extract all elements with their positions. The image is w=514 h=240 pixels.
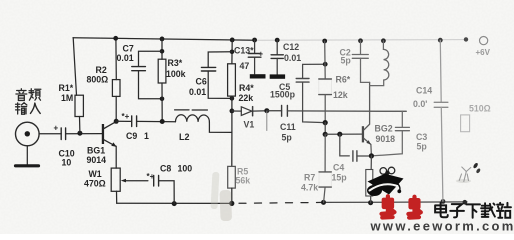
node junction bottom rail at R5 (229, 201, 234, 206)
svg-text:+: + (54, 124, 59, 133)
label audio input char shu (16, 103, 27, 114)
svg-text:C11: C11 (280, 122, 296, 132)
svg-text:C8: C8 (160, 164, 171, 174)
wire C11 to C3 top (RF line) (287, 110, 406, 112)
wire BG1 emitter to W1 (115, 146, 117, 168)
node rail junction L1 coil (381, 38, 386, 43)
resistor R1 (75, 95, 83, 116)
watermark red bug character 2 (408, 197, 420, 218)
diode V1 (232, 107, 267, 116)
inductor L2 core dashes (175, 109, 208, 111)
node rail junction R2 (113, 36, 118, 41)
svg-text:R2: R2 (96, 65, 107, 75)
node BG2 emitter junction (369, 153, 374, 158)
wire W1 bottom to rail (116, 191, 118, 203)
svg-text:510Ω: 510Ω (469, 104, 491, 114)
wire C8 to ground rail (159, 181, 175, 204)
wire R1 bottom (79, 117, 81, 134)
resistor R8 hidden behind logo (366, 170, 373, 197)
node rail junction C2 (358, 38, 363, 43)
wire BG2 emitter to ground rail (370, 156, 373, 203)
label audio input char pin (29, 89, 41, 100)
node C7 top junction (160, 49, 165, 54)
node C5 R6 junction (323, 62, 328, 67)
svg-text:C12: C12 (283, 42, 299, 52)
resistor R2 (112, 80, 120, 97)
wire base line to BG2 (325, 133, 362, 135)
highlighter smudge right (219, 190, 232, 221)
resistor R5 (228, 166, 236, 188)
svg-text:0.01: 0.01 (189, 87, 206, 97)
node rail junction C14 (438, 38, 443, 43)
svg-text:5p: 5p (417, 142, 428, 152)
resistor R3 (158, 59, 166, 83)
transistor BG2 base bar (362, 126, 364, 142)
svg-text:R4*: R4* (239, 83, 254, 93)
node rail junction R4 (230, 38, 235, 43)
wire divider node down (324, 123, 326, 135)
svg-text:10: 10 (62, 158, 72, 168)
wire C13 top (254, 40, 256, 53)
resistor R6 faded box (319, 79, 332, 95)
svg-text:47: 47 (240, 61, 250, 71)
transistor BG2 emitter arrowhead (366, 140, 371, 144)
svg-text:1: 1 (144, 131, 149, 141)
node rail junction right (464, 37, 468, 41)
transistor BG1 base bar (102, 124, 104, 144)
wire C7 bottom loop (139, 71, 163, 99)
transistor BG2 collector lead (364, 82, 370, 129)
node junction bottom rail right end (463, 200, 468, 205)
wire C13 bottom (254, 57, 256, 74)
wire R5 bottom (231, 188, 233, 203)
capacitor C5 (296, 79, 309, 83)
wire C6 top loop (208, 52, 232, 68)
capacitor C11 (282, 105, 288, 116)
wire C12 top (276, 40, 278, 55)
wire junction to C11 (267, 110, 282, 112)
svg-text:*+: *+ (122, 112, 130, 121)
capacitor C14 (434, 102, 448, 107)
wire bottom ground rail right (324, 201, 468, 204)
label audio input char yin (16, 89, 27, 101)
wire C7 top loop (139, 51, 163, 66)
svg-text:R1*: R1* (59, 83, 74, 93)
wire R6 top (324, 41, 327, 79)
node junction bottom rail at C14 (441, 199, 446, 204)
wire R2 bottom to collector node (115, 96, 117, 121)
ground bar C13 (250, 74, 266, 78)
wire C14 bottom to rail (441, 107, 443, 201)
wire R4 bottom to V1 node (231, 96, 233, 132)
svg-text:C4: C4 (333, 163, 344, 173)
capacitor C2 (352, 55, 368, 59)
resistor R7 faded box (319, 172, 331, 187)
svg-text:C13*: C13* (234, 46, 254, 56)
node rail junction R6 (322, 39, 327, 44)
node junction bottom rail at C8 (172, 201, 177, 206)
wire C2 bottom to collector (361, 58, 370, 82)
inductor L1 oscillator coil (370, 41, 389, 86)
watermark site name char xia (466, 204, 480, 217)
wire L2 to R4 column (209, 122, 232, 132)
wire bottom ground rail dashed middle (239, 201, 324, 204)
wire C14 top (439, 40, 442, 102)
transistor BG1 emitter lead (104, 140, 116, 147)
svg-text:C7: C7 (123, 44, 134, 54)
node rail junction R3 C7 (160, 37, 165, 42)
wire R4 column to R5 (231, 132, 233, 166)
resistor R4 (228, 64, 236, 96)
svg-text:C6: C6 (196, 77, 207, 87)
node junction bottom rail at BG2 emitter ground (368, 200, 373, 205)
svg-text:L2: L2 (179, 132, 190, 142)
ground under input jack (16, 164, 39, 167)
transistor BG2 emitter lead (364, 139, 371, 145)
inductor L2 (176, 115, 210, 122)
wire R3 column top (161, 39, 163, 59)
svg-text:C3: C3 (416, 132, 427, 142)
wire C5 top from R6 node (303, 64, 326, 78)
wire base node to R7 (324, 134, 326, 172)
node C11 line junction (264, 108, 269, 113)
node C7 bottom junction (160, 97, 165, 102)
capacitor C9 (132, 116, 137, 127)
wire C4 left branch (340, 134, 350, 156)
wire jack to C10 (39, 133, 61, 135)
wire C4 right to emitter node (357, 155, 372, 157)
svg-text:R6*: R6* (336, 75, 351, 85)
wire C10 to BG1 base (66, 133, 102, 135)
wire C2 top (360, 41, 362, 55)
watermark site name char dian (435, 203, 448, 217)
watermark site name char zhan (497, 203, 511, 218)
capacitor C13 (248, 54, 261, 58)
node C6 top junction (230, 50, 235, 55)
wire bottom ground rail solid left (117, 202, 232, 204)
node C4 junction (337, 132, 342, 137)
node BG2 base divider junction (323, 120, 328, 125)
svg-text:100: 100 (178, 164, 193, 174)
svg-text:4.7k: 4.7k (301, 183, 318, 193)
antenna sketch (456, 162, 481, 183)
wire top supply rail faded right portion (256, 39, 467, 42)
resistor 510 ohm faded (461, 115, 470, 132)
svg-text:5p: 5p (282, 133, 293, 143)
node R3 L2 junction (160, 119, 165, 124)
wire C3 bottom to emitter node (371, 131, 402, 156)
svg-text:9018: 9018 (376, 134, 396, 144)
wire jack to ground (26, 146, 28, 164)
wire C6 bottom loop (208, 71, 232, 98)
watermark graduation cap logo (367, 167, 404, 196)
svg-text:800Ω: 800Ω (87, 75, 109, 85)
wire C9 to L2 (137, 120, 176, 122)
node C6 bottom junction (230, 96, 235, 101)
svg-text:100k: 100k (166, 69, 186, 79)
svg-text:R3*: R3* (168, 58, 183, 68)
watermark site name char zi (450, 204, 464, 217)
capacitor C7 (132, 67, 146, 71)
svg-text:0.01: 0.01 (117, 53, 134, 63)
svg-text:9014: 9014 (87, 155, 107, 165)
svg-text:1M: 1M (61, 93, 73, 103)
svg-text:0.01: 0.01 (284, 53, 301, 63)
wire stub below junction (266, 111, 268, 131)
wire C12 bottom (276, 58, 278, 74)
wire R7 bottom (324, 187, 326, 202)
capacitor C6 (201, 67, 215, 71)
capacitor C10 (61, 128, 65, 140)
node junction bottom rail at R7 (321, 200, 326, 205)
potentiometer W1 wiper arrow (121, 179, 126, 183)
node V1 junction (230, 109, 235, 114)
wire emitter to node (370, 145, 373, 156)
svg-text:www.eeworm.com: www.eeworm.com (370, 218, 514, 233)
node R1 base junction (77, 131, 82, 136)
svg-text:C9: C9 (126, 131, 137, 141)
highlighter smudge left (211, 172, 220, 209)
svg-text:15p: 15p (332, 173, 348, 183)
svg-text:BG2: BG2 (375, 124, 393, 134)
wire R6 bottom (324, 95, 326, 123)
svg-text:0.0': 0.0' (413, 99, 427, 109)
capacitor C12 (271, 55, 283, 59)
svg-text:C14: C14 (416, 86, 432, 96)
capacitor C8 (154, 176, 159, 187)
svg-text:+: + (259, 50, 264, 59)
svg-text:5p: 5p (341, 56, 352, 66)
wire W1 wiper to C8 (126, 180, 148, 182)
label audio input char ru (30, 103, 40, 113)
watermark site name char zai (481, 203, 495, 217)
wire R2 top from rail (115, 38, 117, 79)
transistor BG1 collector lead (104, 122, 116, 129)
wire R4 column top (231, 40, 233, 64)
node BG2 base line junction (323, 132, 328, 137)
input jack J1 (15, 122, 39, 146)
wire R3 bottom (161, 83, 163, 122)
svg-text:V1: V1 (244, 120, 255, 130)
node rail junction C13 (252, 38, 257, 43)
capacitor C3 branch from RF line (401, 111, 403, 127)
svg-text:12k: 12k (333, 90, 348, 100)
svg-text:+6V: +6V (476, 48, 491, 57)
svg-text:1500p: 1500p (270, 90, 296, 100)
svg-text:56k: 56k (236, 176, 251, 186)
node rail junction C12 (275, 38, 280, 43)
capacitor C4 (353, 151, 357, 161)
potentiometer W1 (111, 168, 120, 191)
svg-text:W1: W1 (89, 169, 102, 179)
svg-text:R7: R7 (304, 173, 315, 183)
ground bar C12 (270, 74, 285, 78)
wire collector node to C9 (116, 120, 131, 122)
node BG1 collector junction (114, 119, 119, 124)
svg-text:470Ω: 470Ω (84, 179, 106, 189)
watermark red bug character 1 (382, 196, 395, 217)
svg-text:22k: 22k (239, 93, 254, 103)
terminal +6V (480, 37, 488, 45)
wire top supply rail (dark left portion) (73, 38, 256, 40)
wire R1 top from rail (73, 38, 76, 95)
capacitor C3 (395, 127, 409, 130)
transistor BG1 emitter arrowhead (111, 142, 116, 146)
wire C5 bottom to base node (303, 82, 326, 123)
